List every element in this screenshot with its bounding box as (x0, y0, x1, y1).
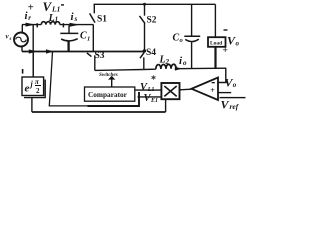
wire top rail (94, 3, 216, 5)
svg-text:2: 2 (36, 87, 40, 95)
capacitor C1 (68, 25, 70, 33)
svg-text:Switches: Switches (99, 72, 118, 78)
svg-text:1: 1 (87, 36, 90, 43)
svg-text:Comparator: Comparator (88, 90, 128, 99)
source v_s (14, 33, 28, 47)
wire rail drop to comparator (49, 52, 88, 106)
inductor L2 (156, 64, 176, 69)
wire mid (source to bridge) (22, 24, 41, 26)
svg-text:S1: S1 (97, 15, 107, 25)
svg-text:2: 2 (165, 58, 170, 66)
node S2 top junction (143, 3, 146, 6)
wire source bottom stub (21, 46, 23, 51)
svg-text:π: π (35, 78, 39, 86)
svg-text:o: o (233, 81, 237, 89)
svg-text:+: + (223, 46, 228, 56)
wire S3 bottom stub (94, 55, 96, 70)
wire up into X box bottom (165, 99, 167, 112)
comparator box (85, 87, 135, 101)
svg-text:S4: S4 (146, 48, 156, 58)
op-amp U1 (192, 78, 219, 101)
wire e-box top stub (32, 52, 34, 78)
svg-text:s: s (9, 37, 12, 42)
svg-text:E1: E1 (150, 98, 158, 104)
multiplier X box (161, 83, 179, 99)
wire after L2 to right (176, 67, 226, 70)
svg-text:+: + (28, 1, 34, 13)
switch S4 blade (140, 52, 144, 58)
svg-text:S3: S3 (95, 51, 105, 61)
comparator shadow (88, 92, 140, 106)
arrow i_o (175, 67, 182, 71)
arrow i_r (26, 23, 36, 27)
label minus op-amp (212, 82, 215, 83)
wire op-amp output (180, 88, 192, 91)
wire load bottom stub (214, 47, 216, 69)
wire S1/S3 leg (92, 25, 94, 52)
arrow on bottom rail (left) (29, 49, 37, 53)
switch S1 (93, 4, 95, 13)
svg-text:e: e (25, 83, 30, 95)
svg-text:s: s (74, 15, 78, 23)
svg-text:r: r (28, 14, 31, 22)
switch S2 (144, 4, 146, 15)
svg-text:ref: ref (230, 102, 240, 111)
wire output return rail (95, 69, 144, 72)
label minus above V_o (224, 29, 228, 30)
svg-text:o: o (183, 59, 187, 67)
wire V_o sense drop (218, 68, 226, 82)
svg-text:+: + (210, 86, 215, 95)
load box (208, 37, 226, 47)
wire bottom rail (22, 51, 145, 53)
svg-text:C: C (80, 31, 87, 42)
arrow on bottom rail (right) (46, 49, 54, 53)
switch S3 blade (87, 53, 92, 57)
mark left margin tick (22, 69, 24, 74)
wire load top drop (214, 4, 216, 37)
e-box shadow (24, 80, 45, 98)
wire vs sense drop to e-box (32, 25, 34, 77)
wire op-amp plus stub (218, 92, 231, 94)
svg-text:S2: S2 (147, 16, 157, 26)
wire source top stub (21, 25, 23, 33)
svg-text:C: C (173, 33, 180, 44)
svg-text:Load: Load (210, 41, 222, 47)
wire bottom feedback run (32, 111, 166, 113)
wire V_E1 (138, 96, 162, 98)
svg-text:*: * (151, 75, 156, 86)
wire S4 bottom stub (143, 57, 145, 69)
node M2 (143, 49, 146, 52)
svg-text:1: 1 (55, 16, 59, 24)
arrow to switches (111, 79, 113, 87)
label V_ref with overline (220, 97, 246, 98)
e-box e^(j pi/2) (22, 77, 44, 96)
arrow i_s (70, 23, 80, 27)
svg-text:V: V (221, 98, 230, 112)
wire e-box output down (31, 98, 33, 112)
capacitor C_o (191, 4, 193, 36)
inductor L1 (41, 22, 60, 25)
svg-text:o: o (236, 40, 240, 48)
wire V_L1* (Xbox to comparator) (135, 89, 162, 91)
